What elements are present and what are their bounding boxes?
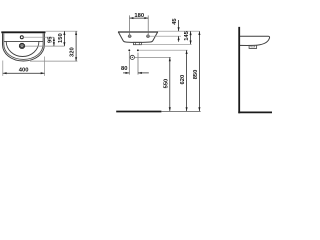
svg-text:320: 320 <box>70 47 76 57</box>
svg-text:550: 550 <box>163 79 169 89</box>
svg-text:95: 95 <box>47 36 53 43</box>
svg-text:145: 145 <box>184 30 190 40</box>
svg-text:850: 850 <box>193 70 199 80</box>
svg-text:620: 620 <box>180 75 186 85</box>
svg-text:180: 180 <box>134 13 144 19</box>
svg-text:45: 45 <box>172 18 178 25</box>
svg-text:400: 400 <box>19 68 29 74</box>
svg-text:150: 150 <box>58 33 64 43</box>
svg-text:80: 80 <box>121 66 127 72</box>
